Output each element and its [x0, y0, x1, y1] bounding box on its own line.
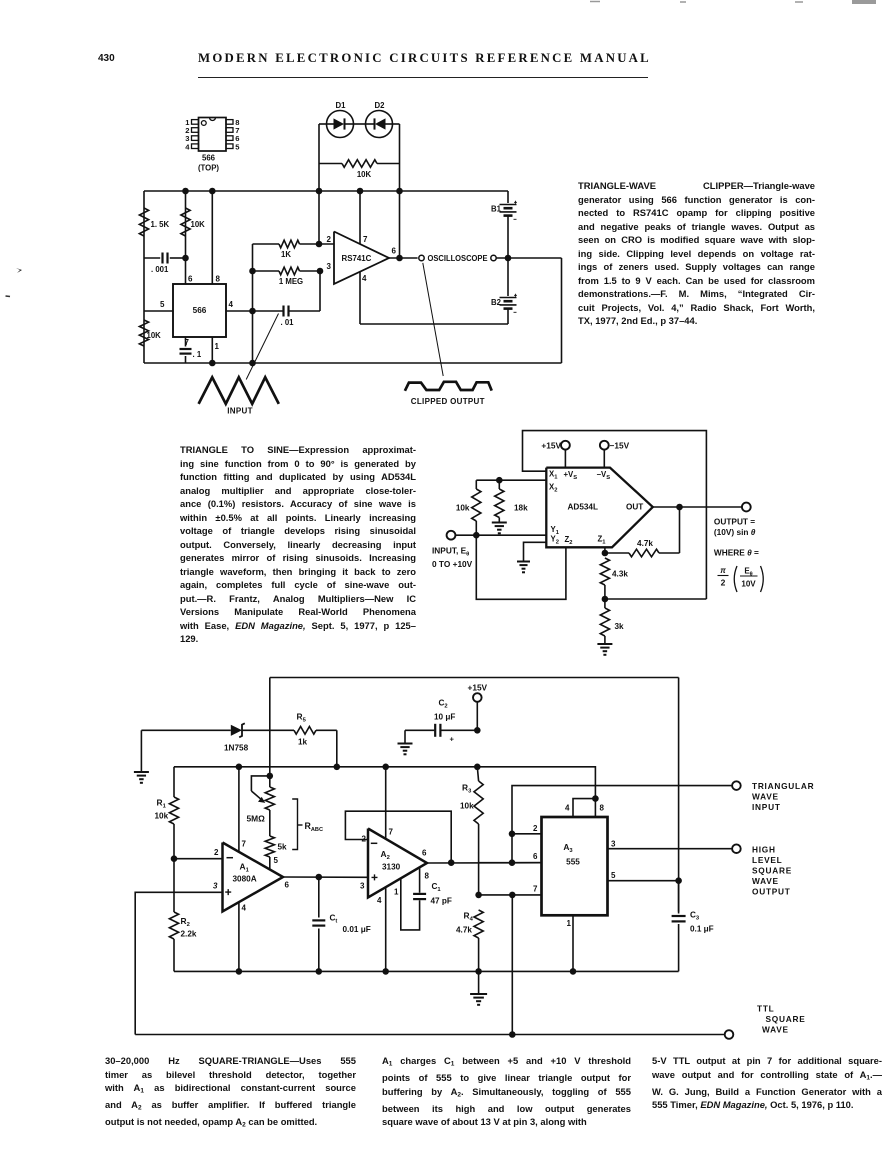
ground C2 — [398, 730, 413, 754]
pin 3 label — [327, 262, 332, 271]
wire junction to right rail — [605, 598, 707, 600]
svg-text:10K: 10K — [191, 220, 206, 229]
wire pin 5 — [144, 310, 173, 312]
analog multiplier AD534L — [546, 468, 653, 548]
terminal -15V — [600, 441, 630, 468]
wire Z1 stub — [604, 547, 606, 553]
pin 3 label A1 — [213, 882, 218, 891]
svg-text:2: 2 — [327, 235, 332, 244]
wire TTL line — [135, 1034, 725, 1036]
svg-text:. 1: . 1 — [193, 350, 202, 359]
resistor 10K (diode shunt) — [319, 160, 400, 179]
svg-text:6: 6 — [188, 275, 193, 284]
diode D1 label — [336, 101, 347, 110]
resistor R3 10k — [460, 767, 483, 895]
wire A2 feedback loop — [345, 811, 451, 863]
pin +Vs label — [564, 470, 578, 481]
wire feedback right vertical — [399, 124, 401, 258]
pin 5 label — [160, 300, 165, 309]
svg-text:10V: 10V — [741, 580, 756, 589]
node X2-18k junction — [496, 477, 503, 484]
wire A1 out to A2 — [283, 876, 368, 878]
wire bottom rail3 — [174, 970, 679, 972]
wire pin2 555 — [512, 833, 542, 835]
label CLIPPED OUTPUT — [411, 397, 485, 406]
scan fragment top — [590, 0, 876, 4]
pin 7 label A1 — [242, 840, 247, 849]
node R3-pin7 junction — [475, 892, 482, 899]
wire pin6 555 — [479, 862, 542, 864]
IC 566 package top view — [185, 118, 240, 173]
wire .01 to pin3 node — [319, 271, 321, 311]
svg-text:10k: 10k — [460, 802, 474, 811]
wire OUT — [653, 506, 742, 508]
svg-text:1K: 1K — [281, 250, 291, 259]
IC 566 box — [173, 284, 226, 337]
svg-text:555: 555 — [566, 858, 580, 867]
wire A2 out — [427, 862, 542, 864]
svg-text:6: 6 — [285, 881, 290, 890]
pin Z2 label — [565, 535, 573, 546]
terminal triangular wave — [732, 781, 741, 790]
zener 1N758 — [141, 723, 294, 752]
label TRIANGULAR WAVE INPUT — [752, 781, 814, 812]
resistor R2 2.2k — [169, 859, 196, 972]
svg-text:10 μF: 10 μF — [434, 713, 455, 722]
svg-text:5MΩ: 5MΩ — [247, 814, 266, 824]
pin 2 label 555 — [533, 824, 538, 833]
svg-text:8: 8 — [600, 804, 605, 813]
node pin6-555 junction — [509, 859, 516, 866]
pin 7 label — [363, 235, 368, 244]
pin 8 label — [216, 275, 221, 284]
svg-text:4: 4 — [229, 300, 234, 309]
node pin7-rail junction — [357, 188, 364, 195]
wire triangular output — [512, 786, 732, 863]
svg-text:4.7k: 4.7k — [456, 926, 472, 935]
svg-text:1k: 1k — [298, 738, 308, 747]
svg-text:3k: 3k — [615, 622, 625, 631]
terminal oscilloscope right — [491, 255, 496, 260]
svg-text:R1: R1 — [157, 798, 167, 810]
node battery center tap — [505, 255, 512, 262]
svg-text:4: 4 — [377, 896, 382, 905]
terminal OUTPUT — [742, 503, 751, 512]
pin Z1 label — [598, 535, 607, 546]
svg-text:WAVE: WAVE — [752, 792, 779, 802]
svg-text:10K: 10K — [147, 331, 162, 340]
label OSCILLOSCOPE — [428, 254, 488, 263]
capacitor .001 — [144, 253, 186, 275]
pin 6 label A1 — [285, 881, 290, 890]
pin -Vs label — [597, 470, 611, 481]
capacitor C1 47pF — [401, 867, 452, 930]
terminal square wave output — [732, 844, 741, 853]
capacitor Ct 0.01uF — [312, 877, 370, 971]
scan mark left dash — [6, 295, 11, 298]
svg-text:2.2k: 2.2k — [181, 930, 197, 939]
svg-text:2: 2 — [533, 824, 538, 833]
capacitor C2 10uF — [405, 699, 477, 744]
svg-text:INPUT: INPUT — [752, 802, 781, 812]
svg-text:A1: A1 — [240, 862, 250, 874]
op-amp A1 3080A — [223, 843, 284, 912]
wire pin 8 column — [211, 191, 213, 284]
wire pin7 555 — [479, 894, 542, 896]
bracket RABC — [292, 799, 323, 850]
wire pin 4 to node — [226, 310, 253, 312]
waveform input triangle — [199, 377, 279, 404]
svg-text:SQUARE: SQUARE — [766, 1014, 806, 1024]
node 1K-1MEG junction — [249, 268, 256, 275]
svg-text:RABC: RABC — [305, 821, 323, 833]
pin 2 label — [327, 235, 332, 244]
wire pin5 555 — [608, 880, 679, 882]
ground Y2 — [517, 562, 530, 573]
pin 4 label — [229, 300, 234, 309]
node input node vertical — [252, 244, 254, 363]
label TTL SQUARE WAVE — [757, 1004, 806, 1035]
wire X2 input — [476, 479, 546, 481]
minus A2 — [371, 842, 378, 844]
diode D2 label — [375, 101, 386, 110]
svg-text:566: 566 — [193, 306, 207, 315]
svg-text:X1: X1 — [549, 470, 558, 481]
resistor 10k — [456, 480, 481, 535]
terminal INPUT — [447, 531, 547, 540]
capacitor C3 0.1uF — [672, 881, 714, 972]
svg-text:5: 5 — [611, 871, 616, 880]
node Ct-rail3 — [316, 968, 323, 975]
svg-text:R2: R2 — [181, 916, 190, 928]
wire diode row — [319, 123, 400, 125]
pin 7 label A2 — [389, 828, 394, 837]
node C2-+15V junction — [474, 727, 481, 734]
wire oscilloscope to battery — [496, 257, 561, 259]
svg-text:SQUARE: SQUARE — [752, 866, 792, 876]
svg-text:RS741C: RS741C — [342, 254, 372, 263]
terminal TTL square wave — [725, 1030, 734, 1039]
pin 7 label 555 — [533, 885, 538, 894]
svg-text:(TOP): (TOP) — [198, 164, 219, 173]
svg-text:4: 4 — [565, 804, 570, 813]
svg-text:3130: 3130 — [382, 863, 401, 872]
pin 2 label A1 — [214, 848, 219, 857]
svg-text:7: 7 — [533, 885, 538, 894]
node R1-pin2 junction — [171, 855, 178, 862]
node pin1-rail3 — [570, 968, 577, 975]
svg-text:+15V: +15V — [467, 683, 487, 693]
resistor 1K — [253, 240, 335, 259]
wire pin2 A1 — [174, 858, 223, 860]
wire right vertical circuit1 — [561, 258, 563, 363]
svg-text:TTL: TTL — [757, 1004, 774, 1014]
resistor 18k — [495, 480, 528, 521]
svg-text:C2: C2 — [439, 699, 448, 710]
leader input node — [246, 314, 278, 380]
svg-text:OUTPUT: OUTPUT — [752, 887, 791, 897]
svg-text:X2: X2 — [549, 483, 557, 494]
node TTL junction — [509, 1031, 516, 1038]
wire pin1 555 — [572, 915, 574, 971]
svg-text:3: 3 — [360, 882, 365, 891]
wire R5 down to rail — [336, 730, 338, 767]
ground zener — [134, 730, 149, 783]
pin 1 label A2 — [394, 888, 399, 897]
plus A1 — [225, 889, 231, 895]
op-amp RS741C — [334, 232, 389, 285]
pin 8 label A2 — [425, 872, 430, 881]
pin Y1 label — [551, 525, 560, 536]
plus A2 — [372, 874, 378, 880]
svg-text:10k: 10k — [456, 504, 470, 513]
svg-text:CLIPPED OUTPUT: CLIPPED OUTPUT — [411, 397, 485, 406]
wire bottom rail circuit1 — [144, 362, 562, 364]
wire left vertical rail circuit1 — [143, 191, 145, 363]
resistor 1.5K — [139, 208, 169, 236]
svg-text:8: 8 — [425, 872, 430, 881]
ground 3k — [597, 644, 612, 655]
resistor R4 4.7k — [456, 910, 483, 971]
label HIGH LEVEL SQUARE WAVE OUTPUT — [752, 845, 792, 897]
node pin4-rail3 — [236, 968, 243, 975]
terminal oscilloscope left — [419, 255, 424, 260]
svg-text:1. 5K: 1. 5K — [151, 220, 170, 229]
resistor 4.7k — [605, 507, 680, 557]
svg-text:+VS: +VS — [564, 470, 578, 481]
node rail-R3 — [474, 764, 481, 771]
svg-text:WAVE: WAVE — [752, 876, 779, 886]
svg-text:Z2: Z2 — [565, 535, 573, 546]
pin 8 label 555 — [600, 804, 605, 813]
svg-text:4: 4 — [242, 904, 247, 913]
label WHERE — [714, 548, 759, 558]
pin X2 label — [549, 483, 557, 494]
capacitor .01 — [253, 306, 321, 328]
svg-text:3: 3 — [213, 882, 218, 891]
pin 4 label — [362, 274, 367, 283]
pin 4 label A1 — [242, 904, 247, 913]
svg-text:3: 3 — [611, 840, 616, 849]
svg-text:10k: 10k — [155, 812, 169, 821]
battery B2 — [491, 258, 517, 324]
svg-text:0 TO +10V: 0 TO +10V — [432, 559, 473, 569]
wire output — [389, 257, 418, 259]
svg-text:−15V: −15V — [610, 441, 630, 451]
node A2 out junction — [448, 859, 455, 866]
leader clipped output — [423, 263, 443, 376]
svg-text:7: 7 — [363, 235, 368, 244]
node pin4 junction — [249, 308, 256, 315]
svg-text:5: 5 — [160, 300, 165, 309]
svg-text:1N758: 1N758 — [224, 744, 249, 753]
node 1K-feedback junction — [316, 241, 323, 248]
node rail-10K junction — [182, 188, 189, 195]
wire Z2 loop — [476, 535, 566, 599]
wire pin7 A1 — [238, 767, 240, 852]
pin X1 label — [549, 470, 558, 481]
capacitor .1 — [180, 337, 202, 363]
svg-text:. 01: . 01 — [281, 318, 295, 327]
svg-text:LEVEL: LEVEL — [752, 855, 783, 865]
terminal +15V — [541, 441, 569, 468]
wire pin7 A2 — [385, 767, 387, 839]
svg-text:+15V: +15V — [541, 441, 561, 451]
svg-text:6: 6 — [533, 852, 538, 861]
battery B1 — [491, 191, 517, 258]
svg-text:AD534L: AD534L — [568, 503, 599, 512]
node OUT junction — [676, 504, 683, 511]
IC 555 box — [542, 817, 608, 915]
resistor 4.3k — [600, 558, 628, 599]
svg-text:566: 566 — [202, 154, 216, 163]
svg-text:18k: 18k — [514, 504, 528, 513]
pin 5 label 555 — [611, 871, 616, 880]
node 4.3k-3k junction — [602, 596, 609, 603]
pin 6 label A2 — [422, 849, 427, 858]
potentiometer 5M — [247, 776, 275, 836]
wire 10K column pin 6 — [185, 191, 187, 284]
pin 1 label — [215, 342, 220, 351]
svg-text:(10V) sin θ: (10V) sin θ — [714, 527, 756, 537]
svg-text:D1: D1 — [336, 101, 347, 110]
pin 3 label A2 — [360, 882, 365, 891]
resistor R1 10k — [155, 767, 179, 859]
svg-text:OSCILLOSCOPE: OSCILLOSCOPE — [428, 254, 488, 263]
svg-text:2: 2 — [214, 848, 219, 857]
node 1MEG junction — [317, 268, 324, 275]
svg-text:1: 1 — [394, 888, 399, 897]
svg-text:Y2: Y2 — [551, 535, 559, 546]
svg-text:6: 6 — [422, 849, 427, 858]
svg-text:A2: A2 — [381, 849, 390, 861]
svg-text:1: 1 — [215, 342, 220, 351]
wire pin4 A1 — [238, 902, 240, 971]
node pin48 junction — [592, 795, 599, 802]
node feedback-rail junction — [316, 188, 323, 195]
pin 3 label 555 — [611, 840, 616, 849]
label INPUT E0 — [432, 546, 473, 570]
svg-text:0.1 μF: 0.1 μF — [690, 925, 714, 934]
svg-text:R4: R4 — [464, 911, 474, 923]
pin 6 label 555 — [533, 852, 538, 861]
label theta formula — [718, 566, 764, 592]
label INPUT — [227, 407, 253, 416]
wire pins 4 8 — [573, 799, 595, 817]
wire left top vertical — [269, 678, 271, 776]
svg-text:5k: 5k — [278, 843, 288, 852]
wire top loop circuit2 — [523, 431, 707, 599]
svg-text:1: 1 — [567, 919, 572, 928]
diode D1 — [327, 111, 354, 138]
scan mark left arrow — [16, 268, 22, 273]
svg-text:R3: R3 — [462, 783, 472, 795]
node pin5-C3 junction — [675, 877, 682, 884]
svg-text:1 MEG: 1 MEG — [279, 277, 303, 286]
node 5M-wiper junction — [267, 773, 274, 780]
svg-text:4: 4 — [362, 274, 367, 283]
svg-text:WHERE θ =: WHERE θ = — [714, 548, 759, 558]
resistor 10K (lower left) — [139, 320, 161, 346]
svg-text:5: 5 — [274, 856, 279, 865]
wire +15 rail circuit3 — [174, 767, 595, 799]
svg-text:C1: C1 — [432, 882, 442, 893]
svg-text:INPUT, Eθ: INPUT, Eθ — [432, 546, 469, 558]
pin 4 label 555 — [565, 804, 570, 813]
svg-text:Z1: Z1 — [598, 535, 607, 546]
svg-text:OUTPUT =: OUTPUT = — [714, 517, 755, 527]
node input-bottom junction — [249, 360, 256, 367]
svg-text:+: + — [450, 735, 455, 744]
wire opamp ground return — [360, 323, 508, 325]
svg-text:D2: D2 — [375, 101, 386, 110]
svg-text:4: 4 — [185, 142, 190, 151]
node Ct junction — [316, 874, 323, 881]
wire TTL tap vertical — [511, 895, 513, 1035]
svg-text:Ct: Ct — [330, 914, 338, 925]
wire pin 1 down — [211, 337, 213, 363]
node pin1-bottom rail — [209, 360, 216, 367]
resistor 5k — [265, 836, 287, 869]
node pin4 A2-rail3 — [382, 968, 389, 975]
node Z1 junction — [602, 550, 609, 557]
resistor 1 MEG — [253, 267, 321, 286]
resistor R5 1k — [294, 712, 337, 747]
pin 5 label A1 — [274, 856, 279, 865]
svg-text:INPUT: INPUT — [227, 407, 253, 416]
svg-text:7: 7 — [389, 828, 394, 837]
svg-text:2: 2 — [721, 578, 726, 588]
wiper arrow — [251, 776, 269, 803]
node rail-A2pin7 — [382, 764, 389, 771]
svg-text:OUT: OUT — [626, 503, 643, 512]
svg-text:R5: R5 — [297, 712, 307, 724]
svg-text:HIGH: HIGH — [752, 845, 776, 855]
node 10k-input junction — [473, 532, 480, 539]
svg-text:0.01 μF: 0.01 μF — [343, 925, 371, 934]
resistor 3k — [600, 599, 624, 644]
node output junction — [396, 255, 403, 262]
svg-text:6: 6 — [392, 247, 397, 256]
wire Y2 ground stub — [524, 542, 547, 561]
svg-text:A3: A3 — [563, 842, 573, 854]
wire pin 4 stub — [359, 272, 361, 324]
ground 18k — [492, 523, 507, 534]
waveform clipped output — [405, 382, 492, 391]
node pin2-555 junction — [509, 831, 516, 838]
node R5-rail junction — [334, 764, 341, 771]
svg-text:WAVE: WAVE — [762, 1025, 789, 1035]
wire top rail circuit3 — [270, 677, 679, 679]
pin 4 label A2 — [377, 896, 382, 905]
svg-text:. 001: . 001 — [151, 265, 169, 274]
svg-text:5: 5 — [235, 142, 240, 151]
wire right frame vertical — [678, 678, 680, 912]
wire pin 7 stub — [359, 191, 361, 244]
pin 2 label A2 — [362, 835, 367, 844]
wire feedback left vertical — [318, 124, 320, 244]
node pin7-tap junction — [509, 892, 516, 899]
pin 7 label — [185, 338, 190, 347]
svg-text:3: 3 — [327, 262, 332, 271]
svg-text:3080A: 3080A — [233, 875, 257, 884]
node .001-pin6 junction — [182, 255, 189, 262]
svg-text:8: 8 — [216, 275, 221, 284]
wire pin4 A2 — [385, 887, 387, 971]
svg-text:4.3k: 4.3k — [612, 570, 628, 579]
wire pin3 555 — [608, 848, 733, 850]
node R4-rail3 — [475, 968, 482, 975]
